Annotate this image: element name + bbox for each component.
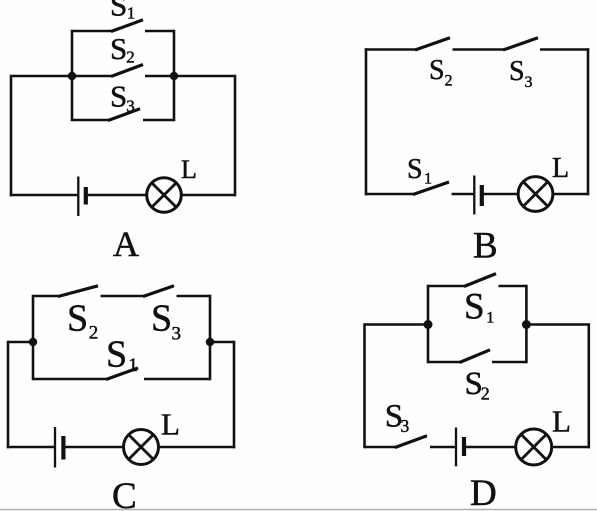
- wire: D parallel box left vertical: [427, 285, 430, 363]
- switch S1 in A: left lead: [72, 30, 112, 33]
- switch S2 in A: left lead: [72, 75, 112, 78]
- svg-text:B: B: [473, 226, 498, 267]
- wire: D right junction stub: [526, 323, 588, 326]
- switch S1 in A: blade: [111, 20, 143, 32]
- svg-text:L: L: [552, 153, 569, 184]
- wire: C bottom wire right of lamp: [159, 446, 236, 449]
- wire: D bottom wire left segment: [365, 446, 397, 449]
- wire: B outer right vertical: [587, 48, 590, 195]
- lamp L in A: circle: [147, 178, 182, 213]
- svg-text:2: 2: [126, 48, 135, 67]
- wire: C top branch right segment: [177, 295, 211, 298]
- battery GD in D: long plate: [455, 428, 457, 467]
- svg-text:3: 3: [401, 416, 410, 436]
- lamp L in A: cross: [152, 183, 176, 207]
- svg-text:C: C: [112, 476, 137, 511]
- wire: B top wire right segment: [540, 48, 589, 51]
- svg-text:S: S: [464, 286, 485, 327]
- switch S1 in C: blade: [106, 368, 138, 380]
- wire: D bottom wire between switch and battery: [430, 446, 456, 449]
- wire: A bottom wire between battery and lamp: [86, 194, 148, 197]
- switch S2 in B: blade: [415, 38, 450, 50]
- wire: C top branch middle segment: [101, 295, 145, 298]
- wire: B top wire left segment: [365, 48, 416, 51]
- wire: D outer left vertical: [363, 323, 366, 448]
- svg-text:3: 3: [126, 96, 135, 115]
- switch S2 in A: blade: [111, 65, 143, 77]
- wire: B outer left vertical: [365, 48, 368, 195]
- lamp L in B: cross: [523, 182, 547, 206]
- wire: B bottom wire between battery and lamp: [482, 193, 519, 196]
- lamp L in B: circle: [518, 177, 553, 212]
- wire: C bottom wire left segment: [7, 446, 55, 449]
- wire: D bottom wire between battery and lamp: [464, 446, 516, 449]
- svg-text:1: 1: [128, 355, 138, 376]
- wire: C parallel box right vertical: [209, 295, 212, 380]
- node: D right junction dot: [522, 320, 531, 329]
- wire: B bottom wire right of lamp: [553, 193, 590, 196]
- switch S3 in C: blade: [143, 286, 174, 297]
- wire: A outer right vertical: [234, 75, 237, 196]
- battery GA (cell) in A: long plate: [77, 177, 79, 217]
- wire: B bottom wire left segment: [365, 193, 414, 196]
- wire: D outer right vertical: [587, 323, 590, 448]
- lamp L in C: circle: [124, 430, 159, 465]
- svg-text:1: 1: [486, 309, 494, 326]
- switch S3 in A: right lead: [143, 119, 174, 122]
- svg-text:2: 2: [481, 383, 490, 403]
- wire: D left junction stub: [365, 323, 429, 326]
- wire: D S2 branch right segment: [492, 361, 526, 364]
- wire: A main line left of node: [11, 75, 72, 78]
- node: A left junction dot: [68, 72, 76, 80]
- svg-text:2: 2: [445, 72, 453, 89]
- svg-text:S: S: [110, 31, 127, 66]
- wire: A main line right of right node: [174, 75, 235, 78]
- switch S2 in C: blade: [58, 286, 98, 297]
- wire: D S2 branch left segment: [428, 361, 461, 364]
- switch S3 in D: blade: [395, 436, 427, 448]
- battery GA in A: short thick plate: [84, 187, 88, 205]
- svg-text:S: S: [509, 56, 525, 87]
- svg-text:3: 3: [172, 324, 182, 345]
- wire: A bottom wire left segment (to battery): [10, 194, 78, 197]
- switch S3 in A: left lead: [72, 119, 109, 122]
- wire: C outer left vertical: [7, 341, 10, 448]
- svg-text:S: S: [67, 298, 88, 340]
- switch S1 in D: blade: [464, 274, 496, 287]
- switch S2 in D: blade: [460, 350, 491, 363]
- battery GD in D: short thick plate: [462, 437, 466, 456]
- lamp L in C: cross: [129, 435, 154, 460]
- wire: C left junction stub: [8, 341, 33, 344]
- wire: B top wire middle segment: [453, 48, 505, 51]
- svg-text:1: 1: [424, 171, 432, 188]
- wire: A parallel box right vertical: [173, 30, 176, 121]
- svg-text:D: D: [470, 473, 497, 511]
- switch S3 in B: blade: [503, 38, 538, 50]
- node: A right junction dot: [170, 72, 178, 80]
- wire: C right junction stub: [210, 341, 234, 344]
- switch S1 in A: right lead: [145, 30, 174, 33]
- wire: D parallel box right vertical: [525, 285, 528, 363]
- svg-text:3: 3: [525, 74, 533, 91]
- wire: C top branch left segment: [33, 295, 59, 298]
- lamp L in D: circle: [516, 429, 552, 465]
- wire: D bottom wire right of lamp: [552, 446, 591, 449]
- svg-text:S: S: [407, 154, 423, 185]
- battery GB in B: long plate: [473, 176, 475, 215]
- svg-text:S: S: [429, 55, 445, 86]
- wire: A parallel box left vertical: [71, 30, 74, 121]
- switch S1 in B: blade: [413, 182, 449, 195]
- svg-text:A: A: [113, 224, 139, 264]
- wire: B bottom wire between switch and battery: [452, 193, 475, 196]
- scan artifact: faint gray rule at bottom edge: [0, 509, 597, 511]
- svg-text:L: L: [552, 404, 571, 439]
- wire: D S1 branch left segment: [428, 285, 465, 288]
- svg-text:S: S: [110, 78, 127, 113]
- svg-text:S: S: [106, 333, 127, 375]
- svg-text:L: L: [161, 407, 180, 442]
- switch S3 in A: blade: [108, 109, 140, 121]
- svg-text:S: S: [151, 298, 172, 340]
- wire: C bottom wire between battery and lamp: [63, 446, 124, 449]
- node: D left junction dot: [424, 320, 433, 329]
- wire: C outer right vertical: [233, 341, 236, 448]
- battery GB in B: short thick plate: [480, 185, 484, 206]
- svg-text:2: 2: [89, 323, 99, 344]
- switch S2 in A: right lead: [145, 75, 174, 78]
- node: C right junction dot: [206, 338, 214, 346]
- wire: A bottom wire right of lamp: [181, 194, 236, 197]
- wire: D S1 branch right segment: [499, 285, 527, 288]
- svg-text:S: S: [110, 0, 127, 22]
- wire: C S1 branch right segment: [144, 378, 210, 381]
- wire: A outer left vertical: [10, 75, 13, 196]
- svg-text:L: L: [181, 155, 197, 184]
- battery GC in C: long plate: [54, 427, 56, 468]
- lamp L in D: cross: [521, 434, 546, 459]
- battery GC in C: short thick plate: [61, 436, 65, 460]
- wire: C S1 branch left segment: [33, 378, 107, 381]
- svg-text:1: 1: [127, 3, 136, 22]
- node: C left junction dot: [29, 338, 37, 346]
- wire: C parallel box left vertical: [32, 295, 35, 380]
